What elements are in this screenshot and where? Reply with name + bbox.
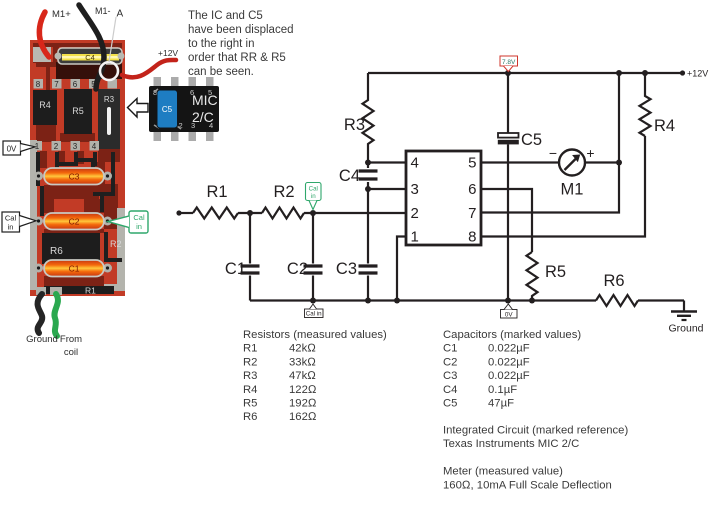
node R5 bottom — [529, 298, 535, 304]
svg-text:C2: C2 — [69, 217, 80, 227]
svg-text:in: in — [136, 222, 142, 231]
black traces mid board — [36, 152, 122, 262]
svg-text:R3: R3 — [104, 95, 115, 104]
trace bar R1 (pcb) — [44, 286, 114, 294]
capacitor C5 — [507, 73, 509, 133]
svg-text:C5: C5 — [521, 131, 542, 149]
svg-text:0V: 0V — [505, 311, 514, 318]
svg-text:R2: R2 — [243, 356, 257, 368]
svg-text:C2: C2 — [287, 260, 308, 278]
svg-text:5: 5 — [468, 155, 476, 172]
svg-text:33kΩ: 33kΩ — [289, 356, 316, 368]
svg-text:Cal: Cal — [5, 214, 17, 223]
node R1/R2/C1 junction — [247, 210, 253, 216]
svg-text:Meter (measured value): Meter (measured value) — [443, 466, 563, 478]
svg-text:in: in — [8, 223, 14, 232]
node pin1 bottom — [394, 298, 400, 304]
PCB board — [30, 40, 125, 296]
pads row 1 2 3 4 — [33, 141, 100, 151]
svg-text:C5: C5 — [162, 105, 173, 114]
IC photo body — [149, 86, 219, 132]
svg-text:R4: R4 — [243, 384, 257, 396]
svg-text:6: 6 — [468, 181, 476, 198]
svg-text:Capacitors (marked values): Capacitors (marked values) — [443, 329, 581, 341]
ground — [683, 301, 685, 312]
wire pin7 riser — [481, 73, 619, 213]
svg-text:in: in — [311, 193, 316, 200]
wire pin6 to R5 — [481, 189, 532, 252]
capacitor C2 — [312, 213, 314, 264]
svg-text:4: 4 — [411, 155, 419, 172]
node meter/riser — [616, 160, 622, 166]
svg-text:M1+: M1+ — [52, 9, 71, 20]
wire node A to R2 — [238, 212, 262, 214]
svg-text:M1: M1 — [561, 181, 584, 199]
svg-text:C3: C3 — [336, 260, 357, 278]
meter M1 — [559, 150, 585, 176]
callout Cal in (pcb right, green) — [108, 211, 148, 233]
svg-text:R6: R6 — [603, 272, 624, 290]
IC U1 body — [406, 151, 481, 245]
node R3/pin4 — [365, 160, 371, 166]
resistor R4 — [640, 73, 651, 136]
pad M1+ top left — [33, 47, 51, 62]
svg-text:162Ω: 162Ω — [289, 411, 317, 423]
node C4/pin3 — [365, 186, 371, 192]
callout Cal in (pcb left) — [2, 212, 36, 232]
svg-text:have been displaced: have been displaced — [188, 24, 294, 36]
wire pin3 — [368, 188, 406, 190]
wire meter to riser — [585, 161, 619, 163]
resistor R3 (pcb body) — [98, 89, 120, 149]
svg-text:R2: R2 — [110, 239, 122, 249]
node Cal-in / C2 junction — [310, 210, 316, 216]
callout 0V (pcb) — [3, 141, 35, 155]
arrow pointer (white, to pcb) — [128, 99, 149, 118]
node C2 bottom — [310, 298, 316, 304]
svg-text:C4: C4 — [85, 53, 95, 62]
svg-text:1: 1 — [411, 229, 419, 246]
svg-text:C2: C2 — [443, 356, 457, 368]
svg-text:192Ω: 192Ω — [289, 398, 317, 410]
wire pin5 to meter — [481, 161, 559, 163]
node C5 bottom — [505, 298, 511, 304]
wire M1- (black) — [79, 5, 104, 89]
svg-text:0.022µF: 0.022µF — [488, 356, 530, 368]
capacitor C1 — [249, 213, 251, 264]
svg-text:C5: C5 — [443, 398, 457, 410]
wire input run row2 — [179, 212, 193, 214]
node R4 top — [642, 70, 648, 76]
node input terminal — [176, 210, 181, 215]
callout Cal in (white, schematic bottom) — [305, 304, 324, 318]
callout 0V (schematic) — [501, 304, 518, 318]
IC photo pins top — [154, 77, 214, 87]
svg-text:Cal in: Cal in — [306, 311, 322, 318]
svg-text:R1: R1 — [85, 286, 96, 296]
svg-text:The IC and C5: The IC and C5 — [188, 10, 263, 22]
svg-text:3: 3 — [73, 142, 78, 151]
svg-text:order that RR & R5: order that RR & R5 — [188, 52, 286, 64]
svg-text:R3: R3 — [243, 370, 257, 382]
svg-text:R4: R4 — [39, 100, 51, 110]
svg-text:A: A — [117, 9, 124, 20]
svg-text:8: 8 — [36, 80, 41, 89]
wire Ground (black, bottom) — [38, 294, 43, 333]
svg-text:Integrated Circuit (marked ref: Integrated Circuit (marked reference) — [443, 425, 628, 437]
svg-text:R2: R2 — [273, 183, 294, 201]
svg-text:MIC: MIC — [192, 92, 218, 108]
bottom wire pads — [36, 287, 46, 295]
svg-text:7.8V: 7.8V — [502, 59, 516, 66]
wire pin8 to R4 — [481, 136, 645, 237]
svg-text:From: From — [60, 334, 82, 345]
svg-text:to the right in: to the right in — [188, 38, 254, 50]
capacitor C1 (pcb) — [34, 260, 112, 277]
resistor R6 (pcb body) — [42, 233, 100, 264]
svg-text:2: 2 — [411, 205, 419, 222]
svg-text:47kΩ: 47kΩ — [289, 370, 316, 382]
svg-text:C3: C3 — [443, 370, 457, 382]
wire M1+ (red) — [39, 12, 49, 57]
svg-text:Cal: Cal — [309, 186, 318, 193]
svg-text:Texas Instruments MIC 2/C: Texas Instruments MIC 2/C — [443, 438, 579, 450]
node +12V terminal — [680, 70, 685, 75]
wire +12V (red) — [122, 60, 176, 77]
resistor R3 — [363, 73, 374, 163]
wire to pin2 — [304, 212, 406, 214]
svg-text:R5: R5 — [545, 263, 566, 281]
svg-text:C4: C4 — [339, 167, 360, 185]
resistor R5 — [527, 252, 538, 301]
capacitor C3 (pcb) — [34, 168, 112, 185]
node C5 top — [505, 70, 511, 76]
wire loop A (white circle) — [100, 62, 118, 80]
svg-text:Ground: Ground — [668, 323, 703, 335]
svg-text:122Ω: 122Ω — [289, 384, 317, 396]
capacitor C2 (pcb) — [34, 213, 112, 230]
svg-text:R5: R5 — [243, 398, 257, 410]
svg-text:47µF: 47µF — [488, 398, 514, 410]
svg-text:R6: R6 — [243, 411, 257, 423]
IC photo pin numbers — [153, 88, 213, 130]
svg-text:0.022µF: 0.022µF — [488, 343, 530, 355]
dark copper trace pattern — [33, 43, 122, 286]
dark component shadow band top — [56, 62, 122, 79]
svg-text:−: − — [549, 145, 557, 161]
svg-text:4: 4 — [92, 142, 97, 151]
svg-text:Ground: Ground — [26, 334, 58, 345]
grey side strips — [30, 140, 37, 290]
pads row 8 7 6 5 — [34, 79, 118, 89]
svg-text:+: + — [586, 145, 594, 161]
svg-text:2: 2 — [54, 142, 59, 151]
callout 7.8V — [500, 56, 518, 72]
resistor R4 (pcb body) — [33, 90, 57, 125]
svg-text:7: 7 — [54, 80, 59, 89]
resistor R5 (pcb body) — [64, 89, 92, 134]
svg-text:6: 6 — [73, 80, 78, 89]
svg-text:C1: C1 — [443, 343, 457, 355]
svg-text:C1: C1 — [69, 264, 80, 274]
svg-text:coil: coil — [64, 347, 78, 358]
wire bottom rail 0V — [250, 299, 596, 301]
wire From coil (green, bottom) — [54, 294, 58, 336]
svg-text:Cal: Cal — [133, 213, 145, 222]
svg-text:R5: R5 — [72, 106, 84, 116]
wire pin4 — [368, 161, 406, 163]
resistor R6 — [596, 295, 638, 306]
svg-text:2/C: 2/C — [192, 109, 214, 125]
svg-text:+12V: +12V — [687, 69, 708, 79]
svg-text:C1: C1 — [225, 260, 246, 278]
svg-text:can be seen.: can be seen. — [188, 66, 254, 78]
wire top rail +12V — [368, 72, 684, 74]
svg-text:Resistors (measured values): Resistors (measured values) — [243, 329, 387, 341]
svg-text:0.1µF: 0.1µF — [488, 384, 517, 396]
svg-text:C3: C3 — [69, 172, 80, 182]
wire pin1 — [397, 237, 406, 301]
svg-text:0.022µF: 0.022µF — [488, 370, 530, 382]
node riser top — [616, 70, 622, 76]
resistor R2 — [262, 208, 304, 219]
svg-text:C4: C4 — [443, 384, 457, 396]
capacitor C5 (photo, blue) — [154, 89, 181, 129]
node C3 bottom — [365, 298, 371, 304]
resistor R1 — [193, 208, 238, 219]
callout Cal in (green, schematic) — [306, 183, 322, 210]
svg-text:0V: 0V — [7, 145, 17, 154]
svg-text:42kΩ: 42kΩ — [289, 343, 316, 355]
svg-text:+12V: +12V — [158, 48, 178, 58]
IC photo pins bottom — [154, 131, 214, 141]
svg-text:3: 3 — [411, 181, 419, 198]
svg-text:M1-: M1- — [95, 6, 111, 16]
svg-text:7: 7 — [468, 205, 476, 222]
capacitor C3 — [367, 189, 369, 264]
svg-text:R1: R1 — [206, 183, 227, 201]
leader line A — [109, 17, 116, 62]
svg-text:R4: R4 — [654, 117, 675, 135]
svg-text:R1: R1 — [243, 343, 257, 355]
svg-text:R3: R3 — [344, 116, 365, 134]
svg-text:160Ω, 10mA Full Scale Deflecti: 160Ω, 10mA Full Scale Deflection — [443, 479, 612, 491]
capacitor C4 — [367, 163, 369, 169]
capacitor C4 (yellow, on pcb) — [55, 48, 125, 64]
svg-text:R6: R6 — [50, 246, 63, 257]
svg-text:8: 8 — [468, 229, 476, 246]
